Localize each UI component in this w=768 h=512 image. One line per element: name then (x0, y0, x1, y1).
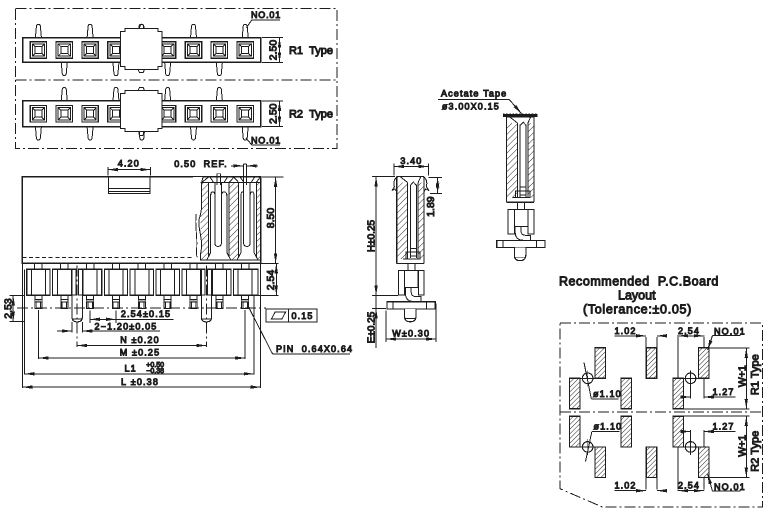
R1 layout pads (570, 378, 581, 409)
svg-text:Acetate Tape: Acetate Tape (441, 89, 507, 99)
side solder foot bar (387, 302, 435, 309)
dimension W±0.30 (385, 311, 387, 343)
cavity bottom face line (200, 259, 260, 261)
contact bodies row (27, 269, 50, 295)
R2 ø1.10 label (586, 431, 592, 461)
R2 hole 2 (685, 442, 696, 453)
side contact neck (407, 263, 409, 270)
contact top post (216, 174, 218, 185)
svg-text:2.50: 2.50 (268, 40, 280, 61)
side body bottom notch (513, 197, 530, 199)
svg-text:NO.01: NO.01 (251, 136, 281, 146)
svg-text:Recommended P.C.Board: Recommended P.C.Board (559, 274, 719, 288)
contact tines (210, 194, 212, 252)
dimension L ±0.38 (22, 386, 260, 388)
svg-text:M ±0.25: M ±0.25 (120, 347, 161, 357)
svg-text:E±0.25: E±0.25 (367, 311, 378, 343)
R1 dimension 1.02 (645, 337, 647, 348)
side body hatched walls (397, 182, 408, 259)
dimension 2.54±0.15 (89, 311, 91, 324)
side bent leg (405, 288, 413, 302)
svg-text:NO.01: NO.01 (251, 10, 281, 20)
svg-text:Layout: Layout (618, 288, 656, 302)
break line white mask (193, 177, 203, 260)
side body hatched walls (507, 123, 518, 198)
svg-text:1.02: 1.02 (614, 481, 636, 491)
svg-text:0.15: 0.15 (291, 311, 313, 321)
R2 contact pads (30, 106, 46, 122)
svg-text:2.50: 2.50 (268, 103, 280, 124)
svg-text:(Tolerance:±0.05): (Tolerance:±0.05) (583, 303, 692, 317)
cavity entry funnel (241, 178, 244, 183)
contact top post (242, 164, 244, 185)
svg-text:2.53: 2.53 (3, 298, 15, 319)
dimension M ±0.25 (37, 310, 39, 359)
R2 dimension 2.50 (262, 100, 283, 102)
R1 dimension W+1 (709, 347, 750, 349)
front view body outline (22, 177, 260, 264)
side slot contact (519, 125, 521, 197)
side contact neck (517, 202, 519, 209)
side block side plates (398, 271, 404, 295)
dimension 2-1.20±0.05 (71, 322, 73, 333)
side block side plates (508, 209, 514, 233)
cutaway rim line (200, 182, 260, 184)
body edge extension lines (21, 263, 23, 388)
R1 ø1.10 label (584, 363, 591, 399)
panel centerline divider (15, 79, 337, 81)
R2 hole 1 (582, 442, 593, 453)
acetate tape (503, 114, 538, 117)
svg-text:ø1.10: ø1.10 (594, 422, 623, 432)
R2 block bottom loop tip (139, 132, 144, 136)
front view hidden line (22, 257, 200, 259)
seating plane centerline (17, 307, 266, 309)
svg-text:ø3.00X0.15: ø3.00X0.15 (442, 101, 500, 111)
top view panel border (phantom box) (15, 9, 337, 149)
R1 dimension 1.27 (690, 384, 692, 399)
dimension 3.40 (393, 164, 395, 176)
dimension 2.54 right (261, 262, 279, 264)
svg-text:1.27: 1.27 (712, 421, 734, 431)
cutaway break line (199, 177, 203, 260)
dimension L1 +0.50/-0.38 (25, 373, 254, 375)
R1 block bottom tab (138, 70, 144, 73)
R2 row pin loops (35, 127, 41, 140)
locating pegs (72, 296, 82, 322)
R1 tape carrier block (121, 28, 162, 69)
svg-text:2.54: 2.54 (678, 326, 700, 336)
R1 hole 2 (685, 373, 696, 384)
R1 dimension 2.50 (262, 37, 283, 39)
svg-text:1.02: 1.02 (614, 326, 636, 336)
svg-text:2.54: 2.54 (265, 270, 277, 291)
cavity entry funnel (210, 178, 213, 183)
svg-text:2.54±0.15: 2.54±0.15 (121, 309, 171, 319)
svg-text:2.54: 2.54 (678, 481, 700, 491)
svg-text:L1: L1 (125, 363, 137, 373)
contact necks (34, 263, 36, 269)
svg-text:1.27: 1.27 (712, 387, 734, 397)
R1 hole 1 (582, 373, 593, 384)
svg-text:4.20: 4.20 (118, 159, 140, 169)
PCB panel centerline (560, 411, 762, 413)
tape pocket (108, 177, 150, 194)
R2 dimension 1.27 (690, 430, 692, 441)
R2 strip body (23, 101, 261, 127)
svg-text:PIN 0.64X0.64: PIN 0.64X0.64 (276, 344, 353, 354)
svg-text:W±0.30: W±0.30 (392, 328, 430, 338)
dimension H±0.25 (372, 176, 395, 178)
svg-text:NO.01: NO.01 (714, 482, 746, 492)
dimension 4.20 (107, 167, 109, 176)
side pin tip (405, 309, 417, 322)
R1 row pin loops (35, 24, 41, 37)
R1 contact pads (30, 42, 46, 58)
side bent leg (515, 226, 523, 240)
svg-text:−0.38: −0.38 (146, 368, 164, 375)
svg-text:NO.01: NO.01 (714, 326, 746, 336)
cutaway hatched walls (200, 183, 208, 261)
side pin tip (514, 248, 526, 261)
svg-text:2−1.20±0.05: 2−1.20±0.05 (95, 322, 158, 332)
PIN 0.64X0.64 label (247, 305, 272, 354)
side view 1 wings (392, 177, 399, 192)
side contact block (514, 209, 528, 226)
side body bottom notch (403, 258, 420, 260)
dimension E±0.25 (372, 308, 386, 310)
svg-text:W+1: W+1 (736, 435, 748, 457)
solder feet (35, 295, 42, 308)
contact bottom skirt (207, 253, 231, 261)
side body top funnel (397, 176, 424, 178)
R2 tape carrier block (121, 91, 162, 132)
svg-text:R2 Type: R2 Type (289, 109, 333, 121)
R2 dimension 1.02 (645, 477, 647, 489)
svg-text:0.50 REF.: 0.50 REF. (174, 159, 228, 169)
svg-text:N ±0.20: N ±0.20 (120, 335, 160, 345)
side contact block (405, 271, 419, 288)
contact bottom skirt (237, 253, 258, 261)
svg-text:L ±0.38: L ±0.38 (121, 377, 159, 387)
svg-text:R2 Type: R2 Type (749, 431, 761, 472)
PCB panel border (560, 323, 762, 507)
R1 strip body (23, 38, 261, 63)
svg-text:W+1: W+1 (736, 365, 748, 387)
wall top chamfers (202, 177, 209, 182)
svg-text:ø1.10: ø1.10 (593, 389, 622, 399)
svg-text:H±0.25: H±0.25 (367, 219, 378, 252)
R2 layout pads (570, 416, 581, 447)
svg-text:3.40: 3.40 (400, 156, 422, 166)
R2 block top tab (138, 87, 144, 90)
dimension 1.89 (429, 176, 442, 178)
R2 dimension 2.54 (677, 447, 679, 490)
R1 block top loop tip (139, 24, 144, 28)
svg-text:R1 Type: R1 Type (749, 354, 761, 395)
svg-text:1.89: 1.89 (425, 196, 437, 217)
svg-text:8.50: 8.50 (265, 208, 277, 229)
R2 dimension W+1 (709, 476, 750, 478)
contact tines (240, 194, 242, 252)
side slot contact (409, 184, 411, 258)
side solder foot bar (497, 241, 545, 248)
R1 dimension 2.54 (677, 337, 679, 379)
svg-text:R1 Type: R1 Type (289, 45, 333, 57)
dimension 8.50 (262, 176, 283, 178)
dimension N ±0.20 (77, 345, 206, 347)
dimension 2.53 (10, 294, 25, 296)
flatness feature frame (266, 309, 317, 322)
